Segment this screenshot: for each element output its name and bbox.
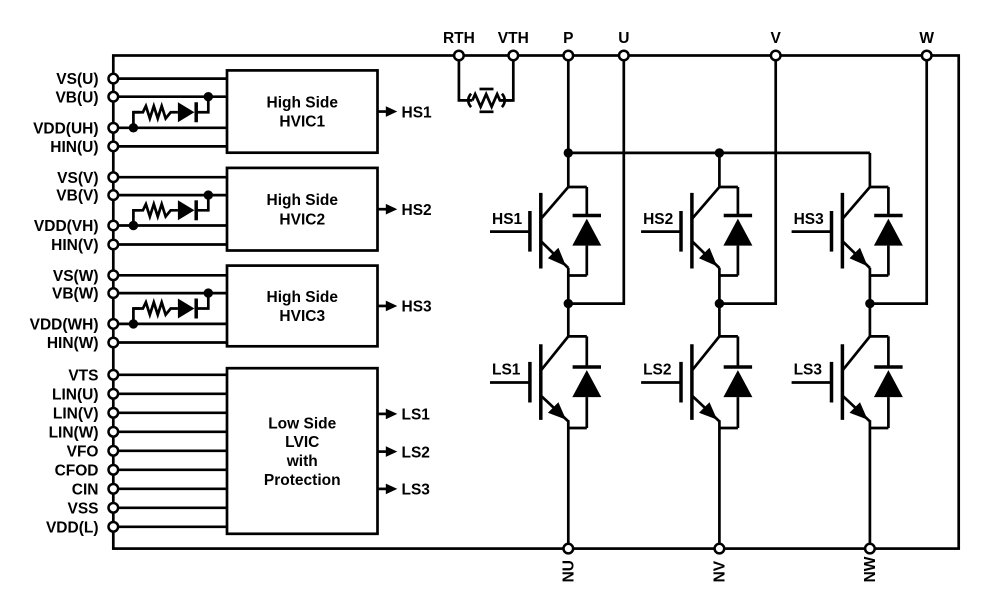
junction dot VB(V) [204, 190, 213, 199]
terminal VTH [509, 51, 519, 61]
wire HS3 emitter to midpoint [869, 268, 872, 304]
wire bootstrap to VB(U) [196, 97, 208, 113]
wire W output vertical [870, 56, 927, 304]
svg-text:LS1: LS1 [492, 362, 521, 379]
diode free-wheel HS2 [724, 214, 752, 218]
svg-text:NU: NU [560, 560, 577, 582]
svg-text:High Side: High Side [267, 94, 339, 111]
wire RTH drop [459, 56, 473, 101]
terminal VB(U) [109, 92, 119, 102]
wire HIN(W) to HVIC3 [113, 341, 227, 344]
svg-text:LS2: LS2 [643, 362, 671, 379]
transistor HS3 IGBT [792, 187, 903, 276]
gate lead HS3 [792, 230, 832, 233]
diode free-wheel LS3 [874, 365, 902, 369]
svg-text:P: P [563, 30, 573, 47]
terminal VS(U) [109, 74, 119, 84]
terminal VDD(VH) [109, 221, 119, 231]
wire bootstrap tap VDD(WH) [133, 309, 140, 324]
svg-text:VDD(WH): VDD(WH) [30, 317, 99, 334]
svg-text:HS1: HS1 [402, 104, 433, 121]
wire bootstrap to VB(V) [196, 195, 208, 210]
terminal LIN(W) [109, 427, 119, 437]
wire VDD(UH) to HVIC1 [113, 126, 227, 129]
terminal VB(V) [109, 190, 119, 200]
wire HIN(V) to HVIC2 [113, 243, 227, 246]
terminal LIN(V) [109, 408, 119, 418]
terminal HIN(U) [109, 142, 119, 152]
output arrow LS2 [378, 450, 387, 453]
diode free-wheel HS1 [573, 214, 601, 218]
diode bootstrap D3 [178, 299, 195, 319]
svg-text:VSS: VSS [67, 500, 98, 517]
wire VS(V) to HVIC2 [113, 176, 227, 179]
resistor bootstrap R2 [133, 204, 178, 216]
output arrow HS2 [378, 208, 387, 211]
wire HS3 collector drop [869, 153, 872, 187]
wire LS3 collector from midpoint [869, 304, 872, 337]
junction dot VB(W) [204, 288, 213, 297]
junction dot VB(U) [204, 92, 213, 101]
block High Side HVIC2 U2 [227, 168, 378, 251]
wire VFO to LVIC [113, 449, 227, 452]
svg-text:HVIC2: HVIC2 [279, 211, 325, 228]
gate lead HS1 [490, 230, 530, 233]
svg-text:NW: NW [862, 556, 879, 582]
wire VB(U) to HVIC1 [113, 95, 227, 98]
junction dot P rail phase2 [715, 148, 724, 157]
svg-text:LIN(V): LIN(V) [53, 405, 99, 422]
wire LIN(U) to LVIC [113, 392, 227, 395]
terminal NU [564, 544, 574, 554]
svg-text:LVIC: LVIC [285, 434, 319, 451]
gate lead LS2 [641, 381, 681, 384]
gate lead HS2 [641, 230, 681, 233]
wire LS2 emitter to N terminal [718, 420, 721, 548]
svg-text:LS1: LS1 [402, 407, 431, 424]
svg-text:W: W [919, 30, 934, 47]
terminal HIN(V) [109, 240, 119, 250]
terminal U [619, 51, 629, 61]
svg-text:HVIC1: HVIC1 [279, 114, 325, 131]
svg-text:LS2: LS2 [402, 444, 430, 461]
wire bootstrap to VB(W) [196, 293, 208, 308]
svg-text:VDD(VH): VDD(VH) [34, 218, 99, 235]
svg-text:HVIC3: HVIC3 [279, 308, 325, 325]
wire U output vertical [568, 56, 624, 304]
block High Side HVIC3 U3 [227, 266, 378, 347]
gate lead LS3 [792, 381, 832, 384]
junction dot VDD(UH) [129, 123, 138, 132]
wire VB(W) to HVIC3 [113, 292, 227, 295]
block Low Side LVIC with Protection U4 [227, 368, 378, 534]
gate lead LS1 [490, 381, 530, 384]
svg-text:LS3: LS3 [402, 482, 431, 499]
diode free-wheel HS3 [874, 214, 902, 218]
svg-text:NV: NV [711, 560, 728, 582]
wire HIN(U) to HVIC1 [113, 145, 227, 148]
svg-text:VFO: VFO [67, 443, 99, 460]
svg-text:HS3: HS3 [794, 211, 825, 228]
thermistor TH1 [472, 94, 513, 107]
terminal LIN(U) [109, 389, 119, 399]
output arrow HS1 [378, 110, 387, 113]
wire P rail horizontal [568, 152, 870, 155]
wire bootstrap tap VDD(VH) [133, 210, 140, 225]
wire LS1 collector from midpoint [567, 304, 570, 337]
junction dot VDD(WH) [129, 319, 138, 328]
svg-text:High Side: High Side [267, 192, 339, 209]
terminal HIN(W) [109, 338, 119, 348]
svg-text:HS1: HS1 [492, 211, 523, 228]
terminal W [922, 51, 932, 61]
diode bootstrap D2 [178, 200, 195, 220]
diode bootstrap D1 [178, 102, 195, 122]
output arrow LS1 [378, 413, 387, 416]
wire HS2 emitter to midpoint [718, 268, 721, 304]
svg-text:Protection: Protection [264, 472, 341, 489]
wire P vertical [567, 56, 570, 188]
svg-text:V: V [771, 30, 782, 47]
terminal VB(W) [109, 288, 119, 298]
svg-text:HS2: HS2 [643, 211, 673, 228]
svg-text:VB(U): VB(U) [55, 89, 98, 106]
wire LIN(W) to LVIC [113, 430, 227, 433]
transistor HS1 IGBT [490, 187, 601, 276]
svg-text:VTH: VTH [498, 30, 529, 47]
wire VS(U) to HVIC1 [113, 77, 227, 80]
wire VS(W) to HVIC3 [113, 274, 227, 277]
wire VDD(WH) to HVIC3 [113, 323, 227, 326]
svg-text:HS2: HS2 [402, 202, 432, 219]
wire VSS to LVIC [113, 506, 227, 509]
svg-text:LIN(U): LIN(U) [52, 386, 99, 403]
wire VDD(L) to LVIC [113, 525, 227, 528]
block High Side HVIC1 U1 [227, 70, 378, 152]
wire LIN(V) to LVIC [113, 411, 227, 414]
svg-text:U: U [618, 30, 629, 47]
svg-text:VTS: VTS [68, 367, 98, 384]
terminal VDD(UH) [109, 123, 119, 133]
svg-text:RTH: RTH [443, 30, 475, 47]
svg-text:High Side: High Side [267, 289, 339, 306]
wire CIN to LVIC [113, 487, 227, 490]
diode free-wheel LS1 [573, 365, 601, 369]
svg-text:LIN(W): LIN(W) [49, 424, 99, 441]
svg-text:HIN(V): HIN(V) [51, 237, 98, 254]
wire HS2 collector drop [718, 153, 721, 187]
svg-text:CFOD: CFOD [55, 462, 99, 479]
svg-text:HIN(W): HIN(W) [47, 335, 99, 352]
wire LS2 collector from midpoint [718, 304, 721, 337]
terminal VTS [109, 370, 119, 380]
wire LS3 emitter to N terminal [869, 420, 872, 548]
svg-text:VDD(L): VDD(L) [46, 519, 99, 536]
svg-text:with: with [286, 453, 318, 470]
svg-text:HS3: HS3 [402, 299, 433, 316]
terminal NW [865, 544, 875, 554]
terminal CIN [109, 484, 119, 494]
svg-text:LS3: LS3 [794, 362, 823, 379]
terminal CFOD [109, 465, 119, 475]
wire VDD(VH) to HVIC2 [113, 224, 227, 227]
wire LS1 emitter to N terminal [567, 420, 570, 548]
wire HS1 emitter to midpoint [567, 268, 570, 304]
svg-text:VS(U): VS(U) [56, 71, 98, 88]
svg-text:VB(V): VB(V) [56, 188, 98, 205]
diode free-wheel LS2 [724, 365, 752, 369]
svg-text:VS(W): VS(W) [53, 268, 99, 285]
svg-text:CIN: CIN [72, 481, 99, 498]
terminal VSS [109, 503, 119, 513]
terminal P [564, 51, 574, 61]
terminal VFO [109, 446, 119, 456]
resistor bootstrap R3 [133, 302, 178, 314]
wire bootstrap tap VDD(UH) [133, 112, 140, 128]
junction dot midpoint phase2 [715, 299, 724, 308]
terminal RTH [454, 51, 464, 61]
transistor LS2 IGBT [641, 336, 752, 428]
junction dot P rail phase1 [564, 148, 573, 157]
module outline border [113, 56, 958, 549]
wire V output vertical [719, 56, 775, 304]
wire VTH drop [500, 56, 513, 101]
transistor HS2 IGBT [641, 187, 752, 276]
terminal VDD(WH) [109, 319, 119, 329]
wire CFOD to LVIC [113, 468, 227, 471]
terminal NV [715, 544, 725, 554]
output arrow LS3 [378, 488, 387, 491]
svg-text:Low Side: Low Side [268, 415, 336, 432]
transistor LS3 IGBT [792, 336, 903, 428]
svg-text:VS(V): VS(V) [57, 170, 98, 187]
terminal V [771, 51, 781, 61]
svg-text:VB(W): VB(W) [52, 286, 99, 303]
junction dot VDD(VH) [129, 221, 138, 230]
junction dot midpoint phase1 [564, 299, 573, 308]
junction dot midpoint phase3 [865, 299, 874, 308]
terminal VS(W) [109, 271, 119, 281]
wire VB(V) to HVIC2 [113, 194, 227, 197]
output arrow HS3 [378, 305, 387, 308]
svg-text:VDD(UH): VDD(UH) [33, 120, 98, 137]
wire VTS to LVIC [113, 373, 227, 376]
terminal VDD(L) [109, 522, 119, 532]
resistor bootstrap R1 [133, 106, 178, 118]
svg-text:HIN(U): HIN(U) [50, 139, 98, 156]
transistor LS1 IGBT [490, 336, 601, 428]
terminal VS(V) [109, 172, 119, 182]
